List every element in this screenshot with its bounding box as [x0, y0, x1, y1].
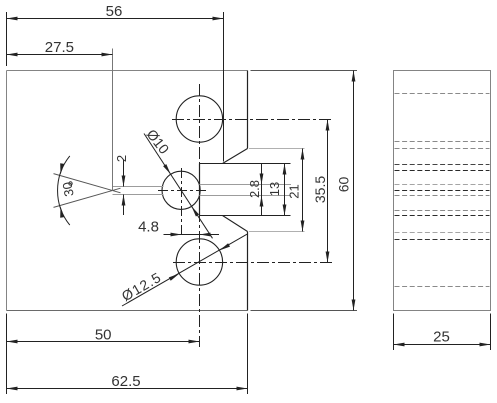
V-groove lower flank [54, 188, 121, 207]
leader/diameter dimension D12.5 (bottom hole) [119, 234, 247, 306]
side view: V apex hidden line [395, 190, 490, 192]
vertical centerline through top/bottom holes (also 50-dim extension) [199, 84, 201, 347]
svg-text:13: 13 [267, 182, 282, 196]
dimension 2.8 (slot width in notch) [247, 164, 263, 216]
svg-text:50: 50 [95, 327, 112, 344]
dimension 50 (bottom) [7, 314, 200, 395]
side view: middle hole bottom hidden line [395, 210, 490, 212]
svg-text:60: 60 [336, 177, 352, 193]
dimension 62.5 (bottom) [7, 314, 248, 395]
svg-text:27.5: 27.5 [45, 39, 74, 56]
dimension 35.5 (hole centres spacing) [312, 120, 329, 263]
slot lower edge (V apex to middle hole), width 2 [113, 194, 164, 196]
dimension 4.8 (hole centre to notch edge) [138, 219, 219, 237]
svg-text:2.8: 2.8 [247, 180, 262, 198]
svg-text:Ø10: Ø10 [143, 126, 172, 157]
part front view: right edge lower segment [247, 232, 249, 311]
bottom hole circle D12.5 [176, 239, 222, 285]
side view: slot top hidden line [395, 184, 490, 186]
leader/diameter dimension D10 (middle hole) [143, 126, 212, 238]
side view: slot bottom hidden line [395, 195, 490, 197]
dimension 30 degree (V-groove angle arc) [58, 156, 77, 225]
top hole circle D12.5 [176, 96, 222, 142]
slot upper edge in notch (width 2.8, extends right as extension line) [200, 184, 292, 186]
part front view: right edge upper segment [247, 71, 249, 149]
dimension 2 (slot width at V) [114, 155, 129, 215]
middle hole vertical centerline (also 4.8-dim extension) [181, 168, 183, 238]
bottom hole horizontal centerline (extends right for 35.5 dim) [173, 262, 333, 264]
chamfer upper (right edge to notch) [223, 149, 248, 164]
V-groove upper flank [54, 174, 121, 193]
svg-text:30: 30 [59, 181, 76, 198]
chamfer lower (notch to right edge) [223, 216, 248, 232]
svg-text:62.5: 62.5 [111, 373, 140, 390]
slot lower edge in notch (width 2.8, extends right as extension line) [200, 195, 292, 197]
slot upper edge (V apex to middle hole), width 2 [113, 186, 164, 188]
part front view: outer outline (top, left, bottom edges) [7, 71, 248, 311]
dimension 56 (top) [7, 3, 224, 161]
dimension 27.5 (top) [7, 39, 113, 190]
side view: bottom hole top hidden line [395, 239, 490, 241]
dimension 25 (side view width) [394, 314, 491, 351]
side view: top hole bottom hidden line [395, 141, 490, 143]
notch bottom edge (extends right as extension line for 13 dim) [200, 215, 291, 217]
svg-text:2: 2 [114, 155, 129, 162]
svg-text:56: 56 [106, 3, 123, 20]
side view: lower chamfer shoulder hidden line [395, 232, 490, 234]
notch top edge (extends right as extension line for 13 dim) [200, 163, 291, 165]
top hole horizontal centerline (extends right for 35.5 dim) [172, 119, 333, 121]
part side view: outline rectangle [394, 71, 491, 311]
side view: upper chamfer shoulder hidden line [395, 148, 490, 150]
side view: bottom hole bottom hidden line [395, 286, 490, 288]
dimension 60 (part height, right) [251, 71, 358, 311]
side view: top hole top hidden line [395, 93, 490, 95]
svg-text:25: 25 [433, 329, 450, 346]
svg-text:4.8: 4.8 [138, 219, 159, 236]
svg-text:21: 21 [287, 184, 302, 198]
dimension 13 (notch height) [267, 164, 286, 216]
side view: notch bottom hidden line [395, 215, 490, 217]
middle hole circle D10 [162, 171, 200, 209]
svg-text:Ø12.5: Ø12.5 [119, 269, 164, 304]
dimension 21 (between chamfer shoulders) [249, 149, 305, 232]
notch left edge [199, 164, 201, 216]
middle hole horizontal centerline [158, 190, 206, 192]
svg-text:35.5: 35.5 [312, 176, 328, 203]
side view: middle hole top hidden line [395, 170, 490, 172]
side view: notch top hidden line [395, 164, 490, 166]
